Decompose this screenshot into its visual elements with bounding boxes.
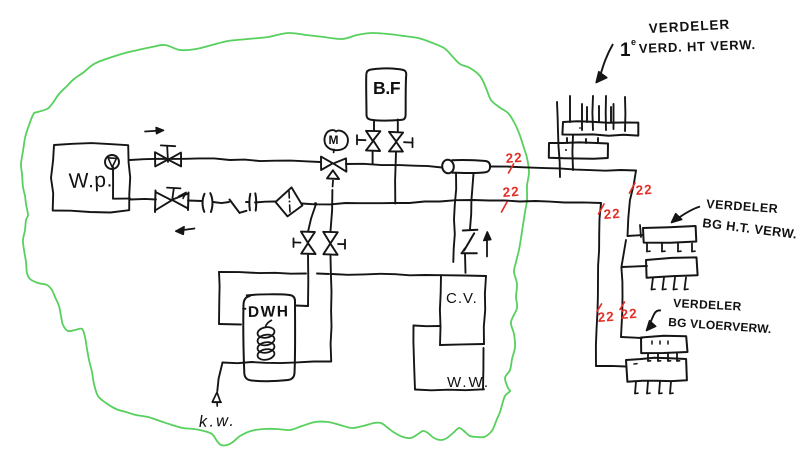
svg-text:M: M bbox=[329, 133, 339, 147]
svg-text:W.p.: W.p. bbox=[68, 168, 113, 193]
svg-text:VERD. HT VERW.: VERD. HT VERW. bbox=[639, 37, 757, 56]
svg-text:VERDELER: VERDELER bbox=[706, 197, 779, 216]
svg-text:k.w.: k.w. bbox=[199, 412, 237, 431]
svg-text:1: 1 bbox=[620, 40, 631, 61]
svg-text:22: 22 bbox=[597, 309, 615, 325]
svg-text:B.F: B.F bbox=[373, 78, 401, 98]
svg-text:W.W.: W.W. bbox=[447, 374, 490, 391]
svg-text:VERDELER: VERDELER bbox=[648, 17, 730, 36]
svg-text:22: 22 bbox=[603, 206, 621, 222]
svg-text:e: e bbox=[631, 37, 636, 47]
svg-text:BG H.T. VERW.: BG H.T. VERW. bbox=[702, 215, 798, 241]
svg-text:22: 22 bbox=[620, 306, 638, 322]
svg-text:22: 22 bbox=[502, 184, 520, 200]
svg-text:C.V.: C.V. bbox=[446, 290, 478, 307]
svg-text:DWH: DWH bbox=[248, 303, 290, 321]
svg-text:VERDELER: VERDELER bbox=[673, 296, 742, 314]
svg-text:BG VLOERVERW.: BG VLOERVERW. bbox=[668, 315, 772, 336]
svg-text:22: 22 bbox=[635, 182, 653, 198]
